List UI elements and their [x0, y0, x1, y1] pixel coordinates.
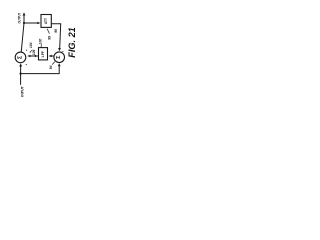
svg-text:LPF: LPF — [41, 51, 45, 57]
svg-text:96: 96 — [54, 29, 58, 33]
svg-text:106: 106 — [32, 49, 36, 55]
svg-text:ATT: ATT — [44, 18, 48, 24]
svg-text:98: 98 — [47, 36, 51, 40]
svg-text:94: 94 — [49, 65, 53, 69]
svg-text:FIG. 21: FIG. 21 — [67, 27, 77, 58]
svg-text:104: 104 — [29, 42, 33, 48]
svg-text:OUTPUT: OUTPUT — [17, 13, 22, 24]
svg-text:INPUT: INPUT — [19, 86, 24, 97]
svg-text:100: 100 — [39, 39, 43, 45]
